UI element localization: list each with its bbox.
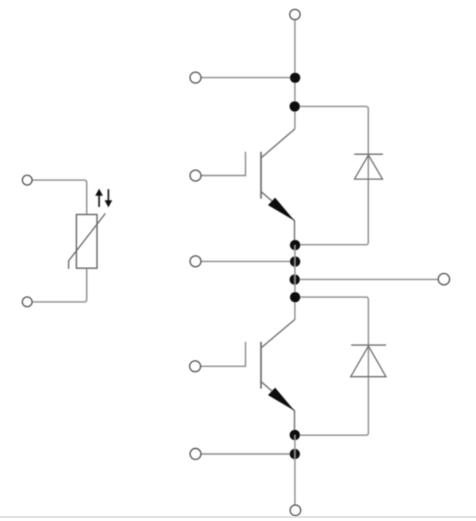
junction dot node C1 (290, 73, 300, 83)
terminal lower-left (190, 449, 201, 460)
wire upper diode branch (295, 106, 368, 244)
wire main vertical top (294, 20, 296, 129)
terminal gate 2 (190, 361, 201, 372)
terminal bottom (emitter 2) (290, 505, 300, 515)
wire mid main vertical (294, 245, 296, 319)
thermistor RT body (76, 215, 97, 269)
IGBT Q2 emitter diagonal (261, 382, 294, 435)
IGBT Q2 emitter arrow (268, 388, 295, 411)
down arrow (105, 189, 113, 207)
IGBT Q1 gate bar (201, 152, 246, 176)
diode D1 cathode bar (354, 153, 383, 155)
wire thermistor top lead (32, 180, 87, 214)
wire main vertical bottom (294, 435, 296, 505)
IGBT Q1 base bar (260, 152, 262, 199)
junction dot 5 (emitter2/diode) (290, 430, 300, 440)
IGBT Q1 emitter arrow (268, 198, 295, 221)
thermistor diagonal stroke (69, 214, 106, 269)
junction dot upper branch (290, 101, 300, 111)
wire lower-left terminal (201, 453, 295, 455)
terminal top (collector 1) (290, 9, 300, 19)
thermistor bottom terminal (22, 297, 32, 307)
diode D2 cathode bar (351, 344, 386, 346)
wire upper-left terminal to node (201, 77, 295, 79)
IGBT Q1 collector diagonal (261, 129, 295, 158)
junction dot 4 (collector 2) (290, 292, 300, 302)
terminal mid-left (190, 256, 201, 267)
wire mid-right terminal (295, 278, 439, 280)
junction dot 6 (aux emitter 2) (290, 449, 300, 459)
thermistor top terminal (22, 175, 32, 185)
diode D2 triangle (351, 346, 386, 377)
IGBT Q2 collector diagonal (261, 319, 295, 347)
terminal right (AC out) (438, 274, 449, 285)
terminal gate 1 (190, 170, 201, 181)
separator line (0, 516, 476, 518)
junction dot 2 (aux emitter) (290, 256, 300, 266)
wire lower diode branch (295, 297, 369, 435)
diode D1 triangle (355, 155, 383, 179)
junction dot 1 (emitter1/diode) (290, 240, 300, 250)
IGBT Q2 gate bar (201, 342, 246, 367)
IGBT Q1 emitter diagonal (261, 192, 294, 245)
terminal upper-left (190, 72, 201, 83)
junction dot 3 (AC output) (290, 274, 300, 284)
up arrow (95, 189, 103, 207)
wire thermistor bottom lead (32, 268, 87, 302)
wire mid-left terminal (201, 260, 295, 262)
IGBT Q2 base bar (260, 342, 262, 389)
